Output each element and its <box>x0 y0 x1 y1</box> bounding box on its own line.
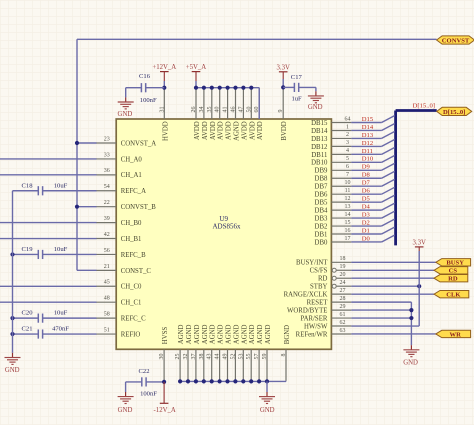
junction WORD/BYTE <box>409 308 413 312</box>
wire RANGE/XCLK <box>351 293 434 295</box>
svg-text:GND: GND <box>403 359 418 366</box>
svg-text:AGND: AGND <box>234 121 241 141</box>
wire PAR/SER <box>351 317 411 319</box>
pin 52 AGND <box>230 324 240 380</box>
junction AGND 25 <box>178 379 182 383</box>
pin 45 CH_C0 <box>96 280 142 291</box>
U9 reference designator <box>219 215 228 223</box>
svg-text:38: 38 <box>199 354 205 360</box>
svg-text:11: 11 <box>345 188 351 194</box>
svg-text:42: 42 <box>104 232 110 238</box>
junction AVDD 26 <box>194 86 198 90</box>
svg-text:51: 51 <box>104 327 110 333</box>
pin 13 DB4 <box>315 204 352 215</box>
pin 9 BVDD <box>278 88 288 141</box>
svg-text:15: 15 <box>345 220 351 226</box>
svg-text:CH_C1: CH_C1 <box>121 300 142 307</box>
pin 22 CONVST_B <box>96 200 156 211</box>
svg-text:D10: D10 <box>362 156 374 163</box>
wire BUSY <box>351 261 435 263</box>
pin 30 HVSS <box>159 327 169 382</box>
junction AGND 43 <box>210 379 214 383</box>
pin 19 CS/FS <box>310 264 352 275</box>
pin 26 AVDD <box>191 88 201 140</box>
svg-text:STBY: STBY <box>310 284 327 291</box>
svg-text:AVDD: AVDD <box>202 121 209 140</box>
wire CH_C1 to left edge <box>0 301 97 303</box>
net label D12 <box>362 140 373 147</box>
svg-text:HVDD: HVDD <box>162 121 169 141</box>
pin 37 AGND <box>191 324 201 380</box>
pin 2 DB13 <box>311 132 351 143</box>
pin 61 PAR/SER <box>300 312 351 323</box>
svg-text:5: 5 <box>346 156 349 162</box>
pin 60 AVDD <box>254 88 264 140</box>
ground AGND GND <box>259 392 275 414</box>
wire D3 <box>351 211 394 218</box>
svg-text:CONST_C: CONST_C <box>121 268 152 275</box>
net label D5 <box>362 196 371 203</box>
ground C16 GND <box>118 97 134 118</box>
svg-text:3: 3 <box>346 140 349 146</box>
pin 1 DB14 <box>311 124 351 135</box>
junction PAR/SER <box>409 316 413 320</box>
svg-text:GND: GND <box>260 407 275 414</box>
svg-text:D13: D13 <box>362 132 374 139</box>
wire RESET <box>351 302 411 345</box>
svg-text:CLK: CLK <box>446 292 461 299</box>
svg-text:DB4: DB4 <box>315 208 328 215</box>
wire D0 <box>351 235 394 242</box>
svg-text:PAR/SER: PAR/SER <box>300 315 327 322</box>
pin 7 DB8 <box>315 172 352 183</box>
pin 36 CH_A1 <box>96 168 142 179</box>
svg-text:DB1: DB1 <box>315 231 328 238</box>
svg-text:12: 12 <box>345 196 351 202</box>
wire AGND to ground <box>266 381 268 392</box>
pin 10 DB7 <box>315 180 352 191</box>
svg-text:2: 2 <box>346 132 349 138</box>
svg-text:14: 14 <box>345 212 351 218</box>
pin 3 DB12 <box>311 140 351 151</box>
svg-text:REFC_A: REFC_A <box>121 188 146 195</box>
op-amp U9 ADS856x IC body <box>116 119 331 349</box>
svg-text:AGND: AGND <box>218 324 225 344</box>
svg-text:36: 36 <box>104 168 110 174</box>
wire left cap rail <box>12 191 14 353</box>
svg-text:31: 31 <box>159 107 165 113</box>
bus D[15..0] <box>396 111 437 246</box>
svg-text:BGND: BGND <box>284 325 291 344</box>
net label D15 <box>362 116 374 123</box>
ground right GND <box>403 345 419 366</box>
svg-text:19: 19 <box>340 264 346 270</box>
wire STBY to 3.3V <box>351 285 419 287</box>
svg-text:RD: RD <box>448 276 458 283</box>
svg-text:22: 22 <box>104 200 110 206</box>
capacitor C17 1uF <box>283 74 316 102</box>
svg-text:13: 13 <box>345 204 351 210</box>
pin 58 REFC_C <box>96 312 146 323</box>
wire CONST_C stub <box>77 269 97 271</box>
port CONVST <box>437 36 474 45</box>
svg-text:CONVST_A: CONVST_A <box>121 140 157 147</box>
svg-text:9: 9 <box>278 110 284 113</box>
svg-text:61: 61 <box>340 312 346 318</box>
svg-text:DB3: DB3 <box>315 215 328 222</box>
junction AGND 49 <box>225 379 229 383</box>
pin 11 DB6 <box>315 188 352 199</box>
pin 18 BUSY/INT <box>296 256 351 267</box>
svg-text:RD: RD <box>318 276 328 283</box>
junction AVDD 41 <box>226 86 230 90</box>
wire D13 <box>351 131 394 138</box>
svg-text:DB5: DB5 <box>315 200 328 207</box>
wire +12V_A to pin 31 <box>163 81 165 88</box>
port BUSY <box>436 259 471 267</box>
wire RD <box>351 277 434 279</box>
pin 46 AGND <box>231 88 241 141</box>
junction AVDD 46 <box>233 86 237 90</box>
svg-text:10uF: 10uF <box>54 182 68 189</box>
svg-text:DB12: DB12 <box>311 144 328 151</box>
svg-text:18: 18 <box>340 256 346 262</box>
svg-text:C17: C17 <box>291 74 303 81</box>
svg-text:CH_B1: CH_B1 <box>121 236 142 243</box>
svg-text:35: 35 <box>207 107 213 113</box>
junction AGND 57 <box>257 379 261 383</box>
wire D1 <box>351 227 394 234</box>
port CLK <box>434 290 469 298</box>
wire D5 <box>351 195 394 202</box>
junction AGND 55 <box>249 379 253 383</box>
svg-text:56: 56 <box>104 248 110 254</box>
pin 42 CH_B1 <box>96 232 141 243</box>
net label D7 <box>362 180 371 187</box>
svg-text:100nF: 100nF <box>140 97 157 104</box>
svg-text:24: 24 <box>340 280 346 286</box>
wire CH_B1 to left edge <box>0 238 97 240</box>
pin 35 AVDD <box>207 88 217 140</box>
svg-text:59: 59 <box>262 354 268 360</box>
ground left rail GND <box>5 353 21 374</box>
pin 20 RD <box>318 272 351 283</box>
svg-text:3.3V: 3.3V <box>276 64 289 71</box>
svg-text:23: 23 <box>104 136 110 142</box>
svg-text:BUSY/INT: BUSY/INT <box>296 260 328 267</box>
junction C19 rail <box>10 252 14 256</box>
power +12V_A <box>152 64 176 81</box>
svg-text:CONVST: CONVST <box>442 38 470 45</box>
wire 3.3V to pin 9 <box>282 79 284 87</box>
svg-text:17: 17 <box>345 236 351 242</box>
pin 41 AVDD <box>223 88 233 140</box>
svg-text:33: 33 <box>104 152 110 158</box>
junction C21 rail <box>10 332 14 336</box>
pin 64 DB15 <box>311 116 351 127</box>
svg-text:D11: D11 <box>362 148 373 155</box>
pin 29 WORD/BYTE <box>287 304 351 315</box>
junction AGND 52 <box>233 379 237 383</box>
pin 43 AGND <box>207 324 217 380</box>
pin 54 REFC_A <box>96 184 146 195</box>
svg-text:AGND: AGND <box>265 324 272 344</box>
wire C22 to ground <box>125 382 127 392</box>
junction CONVST_A <box>75 141 79 145</box>
svg-text:AVDD: AVDD <box>226 121 233 140</box>
svg-text:AGND: AGND <box>241 324 248 344</box>
pin 49 AGND <box>223 324 233 380</box>
net label D9 <box>362 164 371 171</box>
svg-text:HW/SW: HW/SW <box>304 323 328 330</box>
wire D11 <box>351 147 394 154</box>
svg-text:10uF: 10uF <box>54 310 68 317</box>
svg-text:20: 20 <box>340 272 346 278</box>
junction STBY <box>417 284 421 288</box>
port D[15..0] <box>437 107 472 116</box>
svg-text:34: 34 <box>199 107 205 113</box>
pin 14 DB3 <box>315 212 352 223</box>
wire CH_A0 to left edge <box>0 158 97 160</box>
svg-text:AGND: AGND <box>257 324 264 344</box>
svg-text:7: 7 <box>346 172 349 178</box>
pin 27 RANGE/XCLK <box>284 288 352 299</box>
wire D12 <box>351 139 394 146</box>
wire AGND bus <box>180 380 286 382</box>
svg-text:AGND: AGND <box>202 324 209 344</box>
svg-text:AGND: AGND <box>194 324 201 344</box>
svg-text:C20: C20 <box>22 310 34 317</box>
svg-text:D8: D8 <box>362 172 371 179</box>
junction AVDD 34 <box>202 86 206 90</box>
svg-text:GND: GND <box>118 407 133 414</box>
wire D10 <box>351 155 394 162</box>
svg-text:DB2: DB2 <box>315 223 328 230</box>
svg-text:AGND: AGND <box>178 324 185 344</box>
capacitor C21 470nF <box>13 326 97 339</box>
svg-text:AVDD: AVDD <box>241 121 248 140</box>
svg-text:41: 41 <box>223 107 229 113</box>
svg-text:D1: D1 <box>362 227 370 234</box>
svg-text:28: 28 <box>340 296 346 302</box>
svg-text:16: 16 <box>345 228 351 234</box>
wire C17 to ground <box>315 87 317 91</box>
svg-text:49: 49 <box>223 354 229 360</box>
svg-text:ADS856x: ADS856x <box>212 223 241 231</box>
net label D11 <box>362 148 373 155</box>
net label D14 <box>362 124 374 131</box>
svg-text:RANGE/XCLK: RANGE/XCLK <box>284 292 328 299</box>
junction AVDD 40 <box>218 86 222 90</box>
svg-text:AGND: AGND <box>233 324 240 344</box>
net label D3 <box>362 211 371 218</box>
pin 17 DB0 <box>315 236 352 247</box>
pin 5 DB10 <box>311 156 351 167</box>
svg-text:DB14: DB14 <box>311 128 328 135</box>
svg-text:DB13: DB13 <box>311 136 328 143</box>
pin 59 AGND <box>262 324 272 380</box>
net label D13 <box>362 132 374 139</box>
svg-text:30: 30 <box>159 354 165 360</box>
capacitor C22 100nF <box>126 368 165 397</box>
svg-text:D15: D15 <box>362 116 374 123</box>
svg-text:C19: C19 <box>22 246 34 253</box>
svg-text:CH_B0: CH_B0 <box>121 220 142 227</box>
power 3.3V top <box>276 64 289 79</box>
wire D8 <box>351 171 394 178</box>
svg-text:27: 27 <box>340 288 346 294</box>
junction AGND 37 <box>194 379 198 383</box>
capacitor C18 10uF <box>13 182 97 195</box>
pin 23 CONVST_A <box>96 136 156 147</box>
net label D4 <box>362 204 371 211</box>
pin 12 DB5 <box>315 196 352 207</box>
net label D6 <box>362 188 371 195</box>
svg-text:CS/FS: CS/FS <box>310 268 328 275</box>
svg-text:DB10: DB10 <box>311 160 328 167</box>
pin 15 DB2 <box>315 220 352 231</box>
svg-text:AVDD: AVDD <box>210 121 217 140</box>
pin 16 DB1 <box>315 228 352 239</box>
svg-text:54: 54 <box>104 184 110 190</box>
svg-text:10: 10 <box>345 180 351 186</box>
svg-text:64: 64 <box>345 116 351 122</box>
svg-text:D9: D9 <box>362 164 371 171</box>
junction C20 rail <box>10 316 14 320</box>
svg-text:BVDD: BVDD <box>281 121 288 140</box>
pin 57 AGND <box>254 324 264 380</box>
junction pin31 <box>162 86 166 90</box>
wire CH_A1 to left edge <box>0 174 97 176</box>
svg-text:U9: U9 <box>219 215 228 223</box>
svg-text:D[15..0]: D[15..0] <box>443 109 465 116</box>
power -12V_A <box>154 382 176 414</box>
svg-text:BUSY: BUSY <box>446 260 464 267</box>
svg-text:58: 58 <box>104 312 110 318</box>
svg-text:10uF: 10uF <box>54 246 68 253</box>
svg-text:DB9: DB9 <box>315 168 328 175</box>
svg-text:21: 21 <box>104 264 110 270</box>
capacitor C16 100nF <box>126 73 165 104</box>
svg-text:D14: D14 <box>362 124 374 131</box>
svg-text:AVDD: AVDD <box>257 121 264 140</box>
junction AGND 53 <box>241 379 245 383</box>
svg-text:D[15..0]: D[15..0] <box>413 103 435 110</box>
net label D8 <box>362 172 371 179</box>
svg-text:1: 1 <box>346 124 349 130</box>
pin 28 RESET <box>307 296 352 307</box>
svg-text:52: 52 <box>230 354 236 360</box>
power 3.3V right <box>412 239 425 251</box>
power +5V_A <box>186 64 207 81</box>
svg-text:6: 6 <box>346 164 349 170</box>
svg-text:62: 62 <box>340 320 346 326</box>
junction AGND 59 <box>265 379 269 383</box>
pin 50 AVDD <box>246 88 256 140</box>
svg-text:100nF: 100nF <box>140 390 157 397</box>
net label D2 <box>362 219 370 226</box>
wire D6 <box>351 187 394 194</box>
wire CONVST top horizontal <box>77 38 437 40</box>
pin 32 AGND <box>183 324 193 380</box>
svg-text:C18: C18 <box>22 182 34 189</box>
svg-text:DB15: DB15 <box>311 120 328 127</box>
wire WORD/BYTE <box>351 309 411 311</box>
net label D0 <box>362 235 371 242</box>
net label D[15..0] <box>413 103 435 110</box>
wire CH_C0 to left edge <box>0 285 97 287</box>
U9 part value ADS856x <box>212 223 241 231</box>
svg-text:CS: CS <box>449 268 458 275</box>
svg-text:GND: GND <box>5 367 20 374</box>
ground C17 GND <box>308 91 324 111</box>
pin 24 STBY <box>310 280 351 291</box>
svg-text:57: 57 <box>254 354 260 360</box>
svg-text:4: 4 <box>346 148 349 154</box>
svg-text:48: 48 <box>104 296 110 302</box>
svg-text:REFC_C: REFC_C <box>121 316 146 323</box>
svg-text:CH_A1: CH_A1 <box>121 172 142 179</box>
port WR <box>436 330 471 338</box>
svg-text:AGND: AGND <box>186 324 193 344</box>
wire 3.3V vertical <box>418 251 420 326</box>
capacitor C19 10uF <box>13 246 97 259</box>
svg-text:CH_C0: CH_C0 <box>121 284 142 291</box>
svg-text:WORD/BYTE: WORD/BYTE <box>287 307 327 314</box>
junction pin9 <box>281 85 285 89</box>
pin 51 REFIO <box>96 327 140 338</box>
pin 48 CH_C1 <box>96 296 141 307</box>
wire CONVST_B stub <box>77 206 97 208</box>
wire +5V_A rail <box>196 81 259 119</box>
svg-text:29: 29 <box>340 304 346 310</box>
wire D15 <box>351 116 394 123</box>
junction AVDD 47 <box>241 86 245 90</box>
svg-text:37: 37 <box>191 354 197 360</box>
svg-text:46: 46 <box>231 107 237 113</box>
svg-text:8: 8 <box>281 354 287 357</box>
wire CONVST vertical <box>76 39 78 270</box>
svg-text:AGND: AGND <box>210 324 217 344</box>
svg-text:32: 32 <box>183 354 189 360</box>
svg-text:D5: D5 <box>362 196 371 203</box>
pin 39 CH_B0 <box>96 216 142 227</box>
pin 21 CONST_C <box>96 264 151 275</box>
svg-text:50: 50 <box>246 107 252 113</box>
junction CONVST_B <box>75 205 79 209</box>
svg-text:DB7: DB7 <box>315 184 328 191</box>
pin 53 AGND <box>238 324 248 380</box>
svg-text:AGND: AGND <box>249 324 256 344</box>
svg-text:AVDD: AVDD <box>194 121 201 140</box>
svg-text:44: 44 <box>215 354 221 360</box>
wire CS <box>351 269 434 271</box>
svg-text:39: 39 <box>104 216 110 222</box>
wire BGND corner <box>285 380 287 383</box>
svg-text:AGND: AGND <box>226 324 233 344</box>
wire D7 <box>351 179 394 186</box>
pin 33 CH_A0 <box>96 152 142 163</box>
svg-text:D6: D6 <box>362 188 371 195</box>
net label D1 <box>362 227 370 234</box>
svg-text:C21: C21 <box>22 326 33 333</box>
svg-text:40: 40 <box>215 107 221 113</box>
svg-text:+12V_A: +12V_A <box>152 64 176 71</box>
svg-text:D4: D4 <box>362 204 371 211</box>
svg-text:1uF: 1uF <box>291 95 302 102</box>
port RD <box>434 275 468 283</box>
junction AGND 44 <box>218 379 222 383</box>
